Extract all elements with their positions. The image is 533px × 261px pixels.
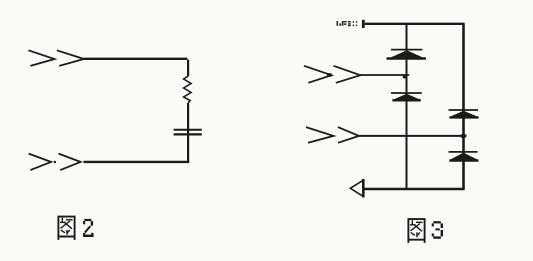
- net label UPS (supply net name, tiny pixel blobs): [337, 21, 358, 26]
- output arrow (open triangle pointing left): [350, 180, 363, 196]
- junction blob at right rail: [461, 134, 465, 138]
- label: character 图 of "图2": [58, 217, 76, 240]
- label: digit 3 of "图3" (blocky pixel style): [432, 221, 443, 239]
- wire: middle vertical rail: [406, 24, 408, 189]
- wire: top horizontal rail: [365, 23, 465, 25]
- capacitor C1 bottom plate: [174, 133, 202, 135]
- terminal tick at supply node: [362, 20, 365, 28]
- junction dot between bottom chevrons: [54, 161, 56, 163]
- junction blob at arrow 1 tip: [327, 73, 332, 77]
- diode D4 (lower, right rail): [449, 152, 479, 161]
- input arrow 2 (double chevron): [306, 127, 359, 143]
- wire: from arrow 1 to middle rail: [360, 74, 409, 76]
- capacitor C1 top plate: [174, 129, 202, 131]
- junction blob at middle rail: [403, 75, 406, 78]
- diode D3 (upper, right rail): [449, 110, 479, 118]
- wire: bottom horizontal rail: [365, 188, 465, 190]
- wire: bottom horizontal to arrow: [84, 161, 190, 163]
- wire: right vertical rail: [462, 24, 465, 189]
- diode D2 (lower, middle rail): [391, 93, 422, 100]
- input terminal arrow bottom-left (double chevron): [29, 154, 81, 171]
- resistor R1 (zigzag): [184, 76, 192, 103]
- label: character 图 of "图3": [408, 219, 426, 243]
- label: digit 2 of "图2" (blocky pixel style): [83, 219, 94, 237]
- input terminal arrow top-left (double chevron): [28, 50, 84, 66]
- diode D1 (upper, middle rail): [387, 50, 427, 59]
- wire: vertical from resistor through capacitor region down to bottom corner: [187, 103, 189, 162]
- input arrow 1 (double chevron): [304, 66, 360, 83]
- wire: from arrow 2 across middle rail to right rail: [359, 135, 467, 137]
- wire: right vertical upper segment: [187, 60, 189, 77]
- wire: top horizontal from arrow to right corner: [84, 58, 187, 60]
- output arrow base bar: [362, 179, 365, 198]
